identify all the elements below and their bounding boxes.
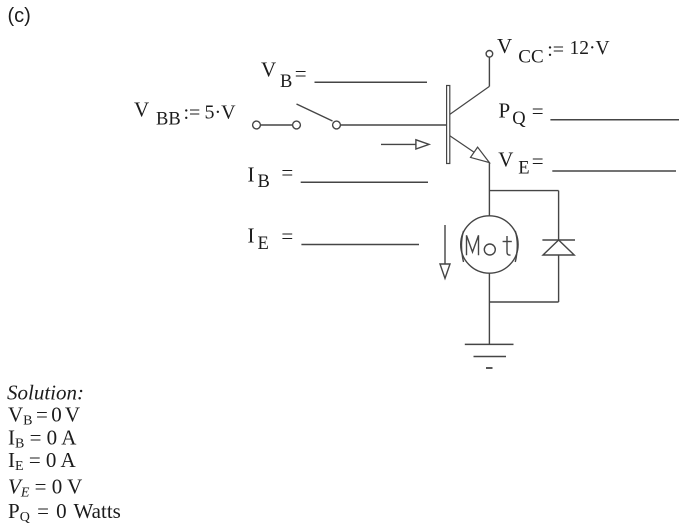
svg-text:CC: CC: [518, 47, 543, 68]
svg-text:=: =: [532, 149, 544, 173]
svg-text:=: =: [281, 161, 293, 185]
label VE: [498, 148, 543, 179]
svg-text:V: V: [498, 148, 513, 172]
svg-text:V: V: [261, 58, 276, 82]
label PQ: [499, 99, 544, 129]
wire diode bottom: [558, 255, 560, 302]
svg-text:=: =: [281, 224, 293, 248]
switch S1: [253, 104, 341, 129]
wire emitter down: [488, 163, 490, 217]
svg-text:BB: BB: [156, 110, 181, 130]
motor M1: [461, 216, 518, 273]
svg-text:I: I: [248, 162, 255, 186]
label VCC := 12V: [497, 34, 610, 68]
arrow IB direction: [381, 140, 429, 149]
svg-text::=: :=: [547, 39, 564, 61]
svg-text:B: B: [280, 72, 292, 92]
wire branch bottom: [489, 301, 558, 303]
svg-text:=: =: [295, 61, 307, 85]
terminal VCC: [486, 51, 493, 58]
svg-text:E: E: [258, 234, 269, 254]
svg-text:5·V: 5·V: [205, 102, 237, 124]
blank line VE: [552, 170, 676, 172]
solution text: [7, 381, 121, 526]
svg-text:V: V: [134, 98, 149, 122]
arrow IE direction: [440, 225, 450, 278]
svg-text:E: E: [518, 158, 529, 178]
wire collector: [488, 57, 490, 86]
wire to ground: [488, 302, 490, 344]
wire branch top: [489, 190, 558, 192]
blank line VB: [315, 81, 428, 83]
ground: [465, 344, 514, 368]
svg-text:Solution:: Solution:: [7, 381, 84, 405]
label VBB := 5V: [134, 98, 236, 130]
svg-text:P: P: [499, 99, 511, 123]
blank line IB: [301, 181, 428, 183]
svg-text:V: V: [497, 34, 512, 58]
svg-text:B: B: [258, 172, 270, 192]
blank line IE: [301, 244, 419, 246]
blank line PQ: [550, 119, 679, 121]
svg-text:Q: Q: [512, 109, 526, 129]
svg-text:I: I: [248, 224, 255, 248]
svg-text:(c): (c): [8, 5, 31, 27]
label IE: [248, 224, 294, 254]
wire base: [340, 124, 446, 126]
wire motor bottom: [488, 273, 490, 302]
svg-text:IE = 0 A: IE = 0 A: [8, 448, 76, 474]
svg-text:PQ = 0 Watts: PQ = 0 Watts: [8, 499, 121, 525]
diode D1: [542, 240, 575, 255]
wire diode top: [558, 191, 560, 240]
label VB: [261, 58, 307, 93]
label IB: [248, 161, 294, 192]
transistor Q1: [447, 86, 490, 164]
svg-text:=: =: [532, 99, 544, 123]
svg-text:VE = 0 V: VE = 0 V: [8, 475, 82, 501]
svg-text::=: :=: [184, 102, 201, 124]
svg-text:12·V: 12·V: [570, 38, 610, 59]
